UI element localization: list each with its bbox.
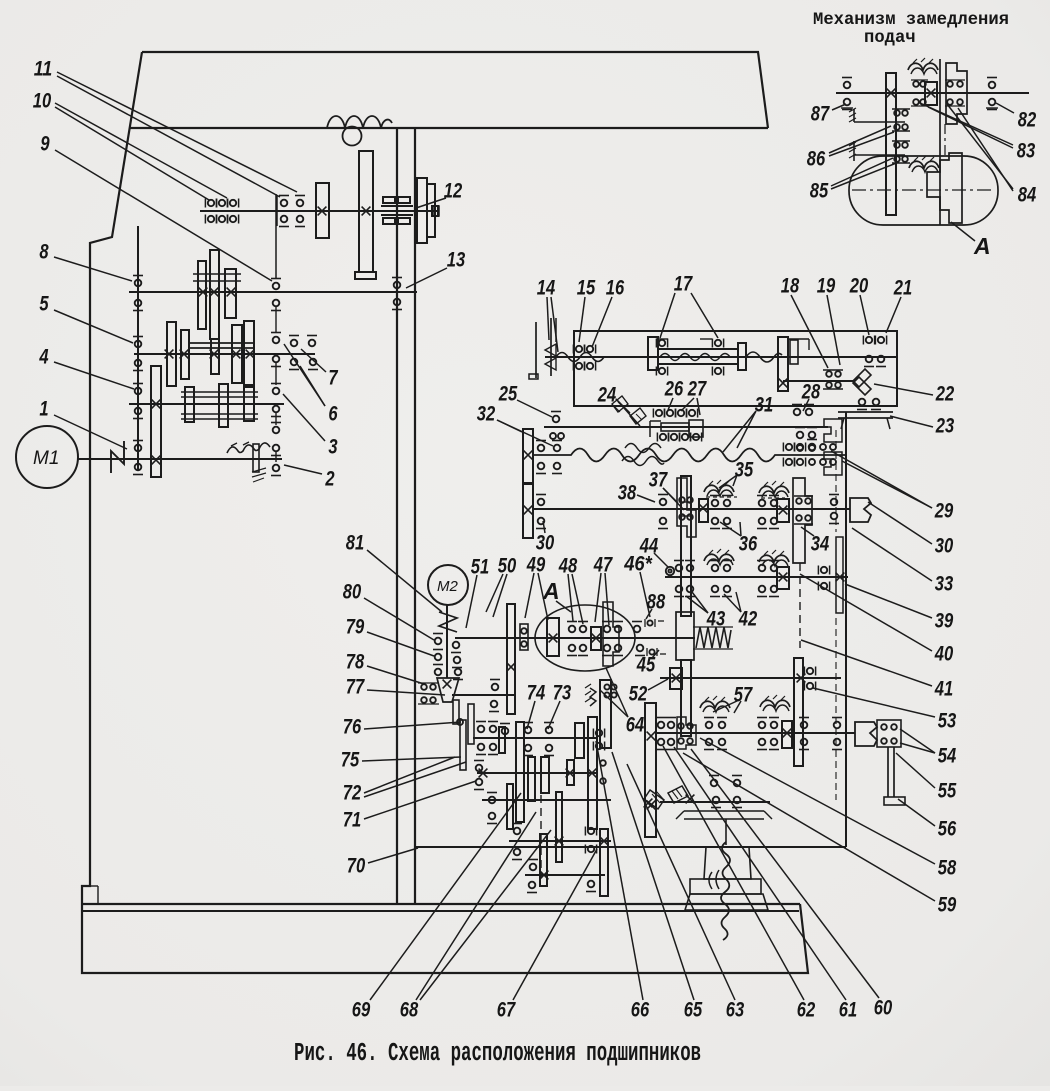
shaft XIV: [477, 772, 597, 774]
bearing 5: [135, 341, 142, 348]
tall gear bar 65 63: [645, 703, 656, 837]
leader 61: [674, 747, 846, 1000]
bearings shaft XVI: [514, 828, 521, 835]
leader 69: [370, 793, 521, 1000]
shaft IX: [533, 508, 850, 510]
leader 82: [996, 103, 1014, 113]
gear bar 37: [677, 478, 696, 537]
svg-text:39: 39: [935, 609, 954, 632]
spring pair on shaft X right: [759, 555, 789, 562]
mechanism lever pivot 86: [853, 141, 855, 161]
svg-text:M1: M1: [33, 448, 59, 469]
leader 8: [54, 257, 132, 281]
bearing column right of gearbox: [275, 194, 277, 279]
bearing group 10 on shaft I: [208, 200, 214, 206]
svg-text:88: 88: [647, 590, 666, 613]
svg-text:46*: 46*: [623, 552, 652, 575]
bearing 2x2 on bar: [604, 684, 609, 689]
bearing 31 circles: [797, 432, 804, 439]
svg-text:15: 15: [577, 276, 596, 299]
shaft A: [455, 637, 695, 639]
gear bars right of funnel: [453, 700, 459, 724]
svg-text:4: 4: [39, 345, 49, 368]
svg-text:82: 82: [1018, 108, 1037, 131]
leader 25: [517, 400, 552, 417]
gear cluster on shaft II: [198, 261, 206, 329]
leader 70: [368, 848, 418, 863]
bearing 23 pair: [859, 399, 866, 406]
label A mechanism leader: [951, 222, 975, 241]
gear cluster on shaft III: [167, 322, 176, 386]
gear block 26 27: [650, 420, 661, 422]
svg-text:17: 17: [674, 272, 693, 295]
rod 55: [887, 747, 889, 797]
svg-text:22: 22: [935, 382, 954, 405]
shaft XI: [660, 677, 841, 679]
mechanism right gear bearings: [947, 81, 953, 87]
leader 78: [367, 666, 424, 684]
svg-text:M2: M2: [437, 578, 458, 595]
leader 27: [681, 398, 694, 411]
shaft VI lower branch: [783, 380, 855, 382]
svg-text:A: A: [542, 578, 560, 604]
svg-text:68: 68: [400, 998, 419, 1021]
bearing pair 64 area: [596, 730, 602, 736]
leader 81: [367, 550, 442, 612]
leader 64: [606, 668, 628, 717]
svg-text:86: 86: [807, 147, 826, 170]
leader 47: [595, 573, 601, 622]
pulley circle: [343, 127, 362, 146]
step bar in section A: [603, 602, 619, 666]
shaft X: [665, 576, 848, 578]
leader 71: [364, 781, 476, 819]
leader 76: [364, 722, 461, 729]
svg-text:28: 28: [801, 380, 820, 403]
svg-text:49: 49: [526, 553, 545, 576]
mechanism worm arcs top: [908, 63, 938, 70]
bearings shaft XVII: [530, 864, 537, 871]
leader 4: [54, 362, 134, 389]
mechanism mid gear: [925, 82, 937, 105]
machine base: [82, 903, 800, 905]
svg-text:52: 52: [629, 682, 648, 705]
leader 39: [845, 584, 932, 618]
svg-text:58: 58: [938, 856, 957, 879]
leader 9: [55, 150, 272, 281]
bearing on bar top 76: [457, 719, 463, 725]
pointer block 53: [855, 722, 877, 746]
svg-text:75: 75: [341, 748, 360, 771]
leader 56: [898, 799, 935, 826]
motor coupling: [111, 441, 124, 473]
leader 7: [301, 349, 326, 372]
inner wall right: [414, 128, 416, 904]
section circle A: [535, 605, 635, 671]
shaft I: [200, 210, 437, 212]
leader 73: [548, 701, 560, 729]
gear 43 top: [699, 499, 708, 522]
bearing 29 30 cluster right: [786, 444, 792, 450]
svg-text:59: 59: [938, 893, 957, 916]
svg-text:41: 41: [934, 677, 953, 700]
mechanism lower step block: [927, 153, 962, 223]
leader 84: [947, 104, 1013, 189]
gear bars shaft XIII: [499, 727, 505, 753]
svg-text:31: 31: [755, 393, 773, 416]
flange right of clutch 12: [417, 178, 427, 243]
leader 51: [466, 575, 477, 628]
leader 2: [284, 465, 322, 474]
mechanism center vertical shaft: [939, 59, 941, 225]
svg-text:Механизм замедления: Механизм замедления: [813, 11, 1009, 30]
svg-text:60: 60: [874, 996, 893, 1019]
leader 55: [896, 753, 935, 788]
svg-text:33: 33: [935, 572, 954, 595]
svg-text:2: 2: [325, 467, 335, 490]
leader 75: [362, 757, 461, 761]
bearing group 11 on shaft I: [276, 196, 278, 226]
leader 33: [852, 528, 932, 581]
mechanism bearing cluster 85 lower: [894, 142, 900, 148]
bearings shaft XIV: [489, 797, 496, 804]
clutch sleeve gear: [151, 366, 161, 477]
shaft XII: [657, 732, 855, 734]
gear bar bottom: [600, 829, 608, 896]
svg-text:62: 62: [797, 998, 816, 1021]
leader 29: [831, 451, 932, 508]
gear cluster on shaft IV: [185, 387, 194, 422]
bevel shaft line: [660, 801, 770, 803]
svg-text:54: 54: [938, 744, 957, 767]
leader 20: [860, 295, 869, 335]
leader 45: [652, 650, 659, 658]
svg-text:47: 47: [593, 553, 613, 576]
shaft VII: [544, 426, 828, 428]
svg-text:25: 25: [498, 382, 517, 405]
shaft VI: [545, 356, 897, 358]
bearing right shaft XI: [807, 668, 813, 674]
dashed line lower cluster: [540, 795, 542, 878]
svg-text:81: 81: [346, 531, 364, 554]
svg-text:26: 26: [664, 377, 683, 400]
shaft III: [134, 353, 315, 355]
bearing 8: [135, 280, 142, 287]
leader 32: [497, 420, 522, 432]
wave segment shaft VI left: [556, 353, 604, 362]
svg-text:70: 70: [347, 854, 366, 877]
leader 58: [700, 738, 935, 864]
leader 68: [416, 812, 536, 1000]
leader 22: [874, 384, 933, 395]
leader 12: [416, 198, 446, 208]
svg-text:10: 10: [33, 89, 52, 112]
svg-text:21: 21: [893, 276, 912, 299]
svg-text:53: 53: [938, 709, 957, 732]
bearing pair shaft X right: [759, 565, 766, 572]
svg-text:30: 30: [935, 534, 954, 557]
leader 46: [640, 572, 650, 617]
tall gear bar lower right: [794, 658, 803, 766]
M2 bearings left: [435, 638, 442, 645]
mechanism oval housing: [849, 156, 998, 225]
bearing 38: [660, 499, 667, 506]
spring pair 57 left: [700, 701, 730, 708]
leader 72: [364, 757, 455, 793]
svg-text:84: 84: [1018, 183, 1037, 206]
M2 output shaft: [452, 694, 516, 696]
bearings near 32: [538, 445, 545, 452]
svg-text:подач: подач: [864, 29, 916, 48]
feed gearbox right wall: [845, 412, 847, 847]
snap ring group 88: [647, 620, 652, 625]
mechanism right step gear: [946, 63, 967, 124]
leader 36: [720, 522, 741, 536]
input vertical shaft: [137, 226, 139, 470]
bearing pair above bracket: [711, 780, 718, 787]
leader 30 right: [868, 502, 932, 544]
leader 77: [367, 690, 445, 695]
shaft II: [129, 291, 417, 293]
leader 57: [713, 701, 737, 712]
bearing pair under 35: [712, 500, 719, 507]
svg-text:37: 37: [649, 468, 668, 491]
leader 31: [737, 411, 756, 448]
svg-text:72: 72: [343, 781, 362, 804]
shaft XV: [482, 799, 611, 801]
leader 86: [829, 126, 891, 153]
svg-text:64: 64: [626, 713, 645, 736]
leader 79: [367, 632, 434, 656]
svg-text:73: 73: [553, 681, 572, 704]
svg-text:50: 50: [498, 554, 517, 577]
leader 3: [283, 394, 325, 441]
gear 52: [670, 668, 682, 689]
feed gearbox floor: [415, 846, 846, 848]
svg-text:83: 83: [1017, 139, 1036, 162]
svg-text:29: 29: [934, 499, 953, 522]
leader 74: [527, 701, 535, 729]
gear on shaft I: [316, 183, 329, 238]
bearing pair right section A: [604, 626, 611, 633]
svg-text:55: 55: [938, 779, 957, 802]
wall inner bar: [836, 537, 843, 613]
long gear bar center: [681, 476, 691, 616]
leader 16: [592, 297, 612, 347]
caption: [294, 1039, 701, 1068]
right step bracket shaft VII: [824, 419, 842, 442]
bearing 53 right wall: [834, 722, 841, 729]
leader 13: [406, 268, 447, 288]
mechanism lever pivot 87: [853, 109, 855, 122]
leader 67: [513, 849, 597, 1000]
leader 66: [596, 741, 643, 1000]
leader 35: [719, 475, 737, 488]
leader 1: [54, 415, 127, 449]
leader 10: [55, 107, 209, 200]
belt wave on top beam: [327, 116, 392, 128]
leader 44: [654, 553, 668, 567]
svg-text:74: 74: [527, 681, 546, 704]
mechanism centerline: [852, 189, 995, 191]
bearing 7: [291, 340, 298, 347]
spring pair on shaft X left: [704, 554, 734, 561]
bearing cluster shaft XII right: [759, 722, 766, 729]
bench under 23: [838, 411, 893, 413]
svg-text:18: 18: [781, 274, 800, 297]
leader 53: [813, 688, 935, 717]
spring pair 35: [704, 485, 734, 492]
gear bar group right of M2: [600, 680, 611, 748]
step bracket shaft XII: [677, 717, 696, 749]
motor M2: [428, 565, 468, 605]
svg-text:9: 9: [40, 132, 49, 155]
ring 44: [666, 567, 674, 575]
shaft XVII: [525, 874, 605, 876]
svg-text:61: 61: [839, 998, 857, 1021]
triple wave overlay: [622, 457, 664, 466]
overload spring on shaft V: [227, 443, 270, 453]
svg-text:20: 20: [849, 274, 868, 297]
M2 shaft vertical: [446, 605, 448, 678]
bearing pair 36: [759, 500, 766, 507]
bearing right shaft IX: [831, 499, 838, 506]
cable squiggle: [721, 842, 730, 940]
svg-text:80: 80: [343, 580, 362, 603]
leader 17: [660, 293, 675, 338]
svg-text:56: 56: [938, 817, 957, 840]
worm gear 17: [648, 337, 658, 370]
coil spring 64 on shaft A: [696, 627, 731, 648]
bar between shaft XIV XV: [528, 757, 535, 801]
svg-text:77: 77: [346, 675, 365, 698]
gear bar shaft XV: [507, 784, 513, 829]
pedestal stem: [725, 819, 727, 845]
gear 47 in section A: [591, 627, 601, 650]
bearing pair shaft X left: [712, 565, 719, 572]
bearing 73 74 target: [491, 701, 498, 708]
bearing 20 21: [866, 337, 872, 343]
svg-text:40: 40: [934, 642, 953, 665]
svg-text:57: 57: [734, 683, 753, 706]
leader 48: [568, 574, 573, 621]
bearing cluster 18 19: [826, 371, 832, 377]
tall gear bar 34: [793, 478, 812, 563]
svg-text:43: 43: [706, 607, 725, 630]
leader 34: [801, 527, 814, 536]
shaft I end cap: [433, 206, 439, 216]
leader 54: [900, 729, 935, 753]
svg-text:Рис. 46. Схема расположения по: Рис. 46. Схема расположения подшипников: [294, 1039, 701, 1068]
feed gear train housing: [574, 331, 897, 406]
pedestal top tier: [704, 847, 751, 879]
hatched stop on shaft V: [253, 444, 259, 472]
svg-text:3: 3: [328, 435, 337, 458]
leader 19: [827, 295, 840, 365]
svg-text:13: 13: [447, 248, 466, 271]
shaft XVI: [509, 840, 611, 842]
pedestal bottom tier: [685, 894, 768, 910]
svg-text:5: 5: [39, 292, 48, 315]
leader 60: [691, 749, 879, 998]
bearing 1: [135, 445, 142, 452]
svg-text:48: 48: [558, 554, 577, 577]
mechanism bearing cluster 86 upper: [894, 110, 900, 116]
shaft XIII: [473, 737, 597, 739]
leader 50: [486, 574, 503, 612]
bearing 6: [291, 359, 298, 366]
leader 65: [612, 752, 694, 1000]
svg-text:14: 14: [537, 276, 556, 299]
leader 30 left: [543, 521, 545, 533]
bearing 28 target: [794, 409, 801, 416]
mechanism mid bearings: [913, 81, 919, 87]
svg-text:66: 66: [631, 998, 650, 1021]
svg-text:87: 87: [811, 102, 830, 125]
mechanism right bearing: [989, 82, 996, 89]
machine housing outline - top beam: [142, 52, 768, 128]
svg-text:38: 38: [618, 481, 637, 504]
gear on shaft X: [777, 567, 789, 589]
leader A section: [556, 601, 571, 612]
leader 63: [627, 764, 735, 1000]
right step bracket shaft VIII: [824, 452, 842, 475]
leader 42: [724, 594, 741, 612]
leader 37: [663, 488, 678, 503]
svg-text:78: 78: [346, 650, 365, 673]
svg-text:32: 32: [477, 402, 496, 425]
mechanism main shaft: [836, 92, 1029, 94]
leader 85: [831, 158, 893, 186]
leader 21: [886, 297, 901, 333]
svg-text:85: 85: [810, 179, 829, 202]
motor M1: [16, 426, 78, 488]
dashed gear bar extension: [799, 563, 801, 648]
bearing rows 77 78: [421, 684, 427, 690]
bevel gear pair 60 61 62: [644, 790, 664, 809]
svg-text:7: 7: [328, 366, 338, 389]
gear bars shaft XIV: [541, 757, 549, 793]
hatch spring 64: [590, 688, 596, 706]
svg-text:30: 30: [536, 531, 555, 554]
svg-text:35: 35: [735, 458, 754, 481]
svg-text:71: 71: [343, 808, 361, 831]
bearing pair in section A: [569, 626, 576, 633]
leader 88: [646, 609, 652, 619]
leader 24: [616, 399, 630, 413]
leader 83: [920, 103, 1013, 145]
leader 38: [637, 495, 655, 502]
shaft V: [78, 458, 282, 460]
svg-text:69: 69: [352, 998, 371, 1021]
svg-text:23: 23: [935, 414, 954, 437]
pointer block right shaft IX: [850, 498, 871, 522]
svg-text:65: 65: [684, 998, 703, 1021]
center gear 19: [778, 337, 788, 391]
bearing left shaft XIV: [476, 765, 483, 772]
svg-text:1: 1: [39, 397, 48, 420]
svg-text:67: 67: [497, 998, 516, 1021]
leader 59: [683, 753, 935, 901]
leader 11: [57, 76, 280, 197]
spring pair 57 right: [760, 700, 790, 707]
leader 23: [890, 416, 933, 427]
svg-text:6: 6: [328, 402, 337, 425]
bearing 30 left: [538, 499, 545, 506]
bevel gears 24: [612, 396, 628, 412]
bearing 4: [135, 388, 142, 395]
M2 coupling zigzag: [439, 612, 457, 632]
